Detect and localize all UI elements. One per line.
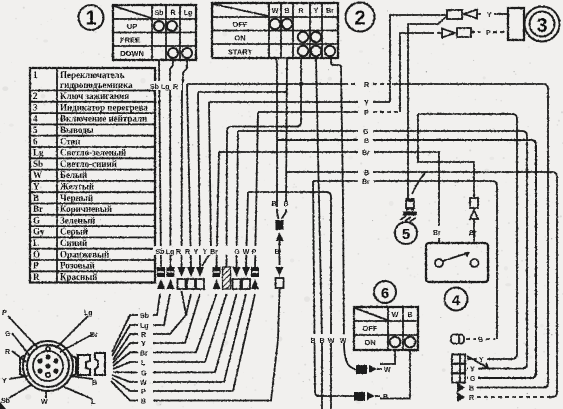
switch S6 stop table (354, 307, 418, 350)
corner artifact (0, 402, 6, 409)
callout 2 (346, 3, 375, 32)
svg-text:Коричневый: Коричневый (60, 204, 112, 214)
svg-text:W: W (392, 312, 399, 319)
svg-text:Светло-синий: Светло-синий (60, 159, 117, 169)
svg-text:Lg: Lg (33, 148, 44, 158)
svg-text:B: B (407, 312, 412, 319)
svg-text:W: W (384, 367, 391, 374)
svg-text:UP: UP (127, 22, 137, 31)
svg-text:Включение нейтрали: Включение нейтрали (60, 114, 147, 124)
bullet connector pair R2 (187, 267, 195, 289)
svg-text:G: G (141, 370, 147, 377)
callout 6 (374, 281, 396, 303)
svg-text:R: R (173, 84, 178, 91)
bullet connector pair Br (213, 267, 221, 289)
svg-text:Sb: Sb (155, 10, 164, 17)
svg-text:B: B (364, 170, 369, 177)
svg-text:G: G (5, 331, 11, 338)
plug leader lines (8, 316, 93, 399)
connector Y2 out (452, 364, 475, 374)
wire W stop to table (380, 350, 395, 364)
svg-text:Черный: Черный (60, 193, 93, 203)
svg-text:Выводы: Выводы (60, 125, 94, 135)
wire B net bold (277, 138, 536, 378)
overheat sensor B5 (400, 198, 417, 222)
svg-text:ON: ON (364, 338, 375, 347)
svg-text:Br: Br (140, 350, 148, 357)
svg-text:B: B (478, 337, 483, 344)
svg-text:R: R (185, 249, 190, 256)
wire bridge row y192 (246, 192, 331, 409)
svg-text:Sb: Sb (1, 398, 10, 405)
wire Br net 2 (313, 58, 497, 409)
svg-text:G: G (470, 376, 476, 383)
connector row labels (153, 246, 283, 256)
svg-text:Желтый: Желтый (60, 182, 94, 192)
svg-text:G: G (363, 129, 369, 136)
svg-text:W: W (328, 338, 335, 345)
wire Lg from S1 (182, 60, 188, 267)
svg-text:Y: Y (314, 8, 319, 15)
svg-text:Y: Y (194, 249, 199, 256)
svg-text:Y: Y (203, 249, 208, 256)
svg-text:Sb: Sb (140, 313, 149, 320)
svg-text:Y: Y (33, 182, 40, 192)
wires from connector row down to fan (153, 291, 255, 391)
svg-text:P: P (486, 30, 491, 37)
svg-text:2: 2 (354, 8, 365, 30)
svg-text:B: B (33, 193, 39, 203)
svg-text:4: 4 (33, 114, 38, 124)
svg-text:Y: Y (141, 341, 146, 348)
svg-text:Y: Y (364, 100, 369, 107)
svg-text:FREE: FREE (120, 36, 140, 45)
connector J1 round plug (20, 341, 76, 391)
svg-text:R: R (176, 249, 181, 256)
svg-text:R: R (298, 8, 303, 15)
wire Br net to relay (217, 150, 440, 267)
svg-text:B: B (271, 201, 276, 208)
bullet connector pair Lg (167, 267, 175, 289)
svg-text:P: P (141, 389, 146, 396)
svg-text:Lg: Lg (140, 323, 149, 330)
svg-text:R: R (5, 349, 10, 356)
wire Br from S2 to stop switch (331, 58, 356, 369)
svg-text:W: W (33, 170, 42, 180)
svg-text:W: W (41, 399, 48, 406)
svg-text:R: R (141, 332, 146, 339)
svg-text:Br: Br (469, 230, 477, 237)
bullet connector pair Sb (157, 267, 165, 289)
svg-text:R: R (33, 272, 40, 282)
fan wires from plug (111, 315, 138, 401)
svg-text:гидроподъемника: гидроподъемника (60, 80, 133, 90)
svg-text:Sb: Sb (156, 249, 165, 256)
relay K4 neutral switch (426, 243, 488, 282)
svg-text:Индикатор перегрева: Индикатор перегрева (60, 102, 148, 112)
svg-text:Y: Y (2, 378, 7, 385)
svg-text:2: 2 (33, 91, 38, 101)
svg-text:Переключатель: Переключатель (60, 70, 125, 80)
bullet connector pair W (242, 267, 250, 289)
gauge U3 overheat indicator (508, 7, 560, 42)
wire stair B from S2 (198, 58, 287, 267)
svg-text:Br: Br (362, 150, 370, 157)
connector slits (158, 271, 258, 273)
bullet connector pair R1 (178, 267, 186, 289)
connector B stop (354, 392, 388, 401)
svg-text:Gy: Gy (33, 227, 45, 237)
svg-text:3: 3 (536, 15, 547, 37)
fan labels (140, 313, 149, 406)
callout 1 (79, 5, 104, 30)
wire Sb from S1 (159, 60, 161, 267)
callout 4 (445, 288, 468, 311)
wire P to gauge (400, 28, 508, 112)
svg-text:B: B (284, 8, 289, 15)
connector G out (452, 374, 476, 384)
svg-text:B: B (364, 138, 369, 145)
wire R from S1 (170, 60, 173, 267)
node labels B B W W (309, 334, 347, 345)
svg-text:Y: Y (487, 12, 492, 19)
svg-text:OFF: OFF (233, 20, 248, 29)
svg-text:G: G (33, 215, 40, 225)
connector hatched (223, 267, 231, 289)
svg-text:Стоп: Стоп (60, 136, 80, 146)
wire sensor to gauge (408, 16, 447, 198)
svg-text:Lg: Lg (84, 310, 93, 317)
svg-text:Br: Br (433, 230, 441, 237)
svg-text:Br: Br (33, 204, 43, 214)
connector B out (451, 335, 495, 345)
plug pin labels (1, 310, 98, 406)
wire G net (237, 129, 528, 369)
svg-text:Белый: Белый (60, 170, 87, 180)
svg-text:B: B (92, 380, 97, 387)
svg-text:Lg: Lg (166, 249, 175, 256)
wire W from S2 to B junction (275, 58, 277, 140)
svg-text:Оранжевый: Оранжевый (60, 249, 109, 259)
wire B pair merge and stop connectors (153, 201, 289, 401)
bullet connector pair G (233, 267, 241, 289)
svg-text:3: 3 (33, 102, 38, 112)
wire Y net (202, 100, 390, 266)
svg-text:P: P (33, 261, 39, 271)
svg-text:4: 4 (452, 292, 461, 309)
svg-text:Серый: Серый (60, 227, 88, 237)
svg-text:W: W (243, 249, 250, 256)
wire R net (187, 82, 548, 388)
wire Y to gauge (390, 10, 508, 103)
svg-text:Розовый: Розовый (60, 261, 95, 271)
svg-text:B: B (383, 394, 388, 401)
svg-text:Br: Br (326, 8, 334, 15)
wire P net (255, 110, 400, 267)
svg-text:W: W (140, 380, 147, 387)
svg-text:B: B (469, 386, 474, 393)
node labels Sb Lg R (148, 81, 182, 91)
connector halves (78, 353, 105, 375)
svg-text:OFF: OFF (363, 324, 378, 333)
svg-text:ON: ON (234, 34, 245, 43)
svg-text:Зеленый: Зеленый (60, 215, 95, 225)
svg-text:5: 5 (402, 226, 410, 243)
svg-text:P: P (252, 249, 257, 256)
svg-text:B: B (141, 399, 146, 406)
connector R out (453, 392, 549, 402)
connector above relay (433, 198, 478, 243)
svg-text:L: L (141, 360, 146, 367)
svg-text:Красный: Красный (60, 272, 97, 282)
svg-text:5: 5 (33, 125, 38, 135)
svg-text:Ключ зажигания: Ключ зажигания (60, 91, 129, 101)
svg-text:R: R (469, 395, 474, 402)
connector Y1 out (452, 355, 488, 369)
bullet connector pair Y (196, 267, 204, 289)
svg-text:P: P (364, 110, 369, 117)
svg-text:6: 6 (33, 136, 38, 146)
svg-text:Y: Y (470, 367, 475, 374)
switch S2 ignition key table (212, 3, 338, 58)
svg-text:Синий: Синий (60, 238, 87, 248)
svg-text:Lg: Lg (184, 10, 193, 17)
wire R stair from S2 to hatched plug (227, 58, 302, 267)
svg-text:1: 1 (33, 70, 38, 80)
wire B net 2 (287, 170, 557, 397)
legend table (30, 68, 155, 283)
svg-text:Sb: Sb (33, 159, 43, 169)
svg-text:Lg: Lg (161, 84, 170, 91)
svg-text:B: B (319, 338, 324, 345)
svg-text:P: P (2, 310, 7, 317)
svg-text:START: START (228, 48, 253, 57)
svg-text:Sb: Sb (150, 84, 159, 91)
wire sensor branch curve (412, 172, 426, 194)
svg-text:R: R (170, 10, 175, 17)
svg-text:G: G (234, 249, 240, 256)
bullet connector pair P (251, 267, 259, 289)
connector B2 out (453, 383, 474, 393)
svg-text:Br: Br (210, 249, 218, 256)
svg-text:B: B (310, 338, 315, 345)
wire B stop to table (380, 350, 410, 399)
svg-text:L: L (33, 238, 39, 248)
switch S1 trim table (113, 5, 196, 60)
svg-text:R: R (364, 82, 369, 89)
svg-text:Светло-зеленый: Светло-зеленый (60, 148, 126, 158)
connector W stop (356, 365, 391, 374)
svg-text:DOWN: DOWN (120, 49, 144, 58)
svg-text:W: W (272, 8, 279, 15)
svg-text:6: 6 (381, 285, 389, 302)
svg-text:B: B (283, 201, 288, 208)
wire link row y114 (418, 114, 517, 359)
svg-text:Br: Br (362, 179, 370, 186)
callout 5 (395, 222, 417, 244)
